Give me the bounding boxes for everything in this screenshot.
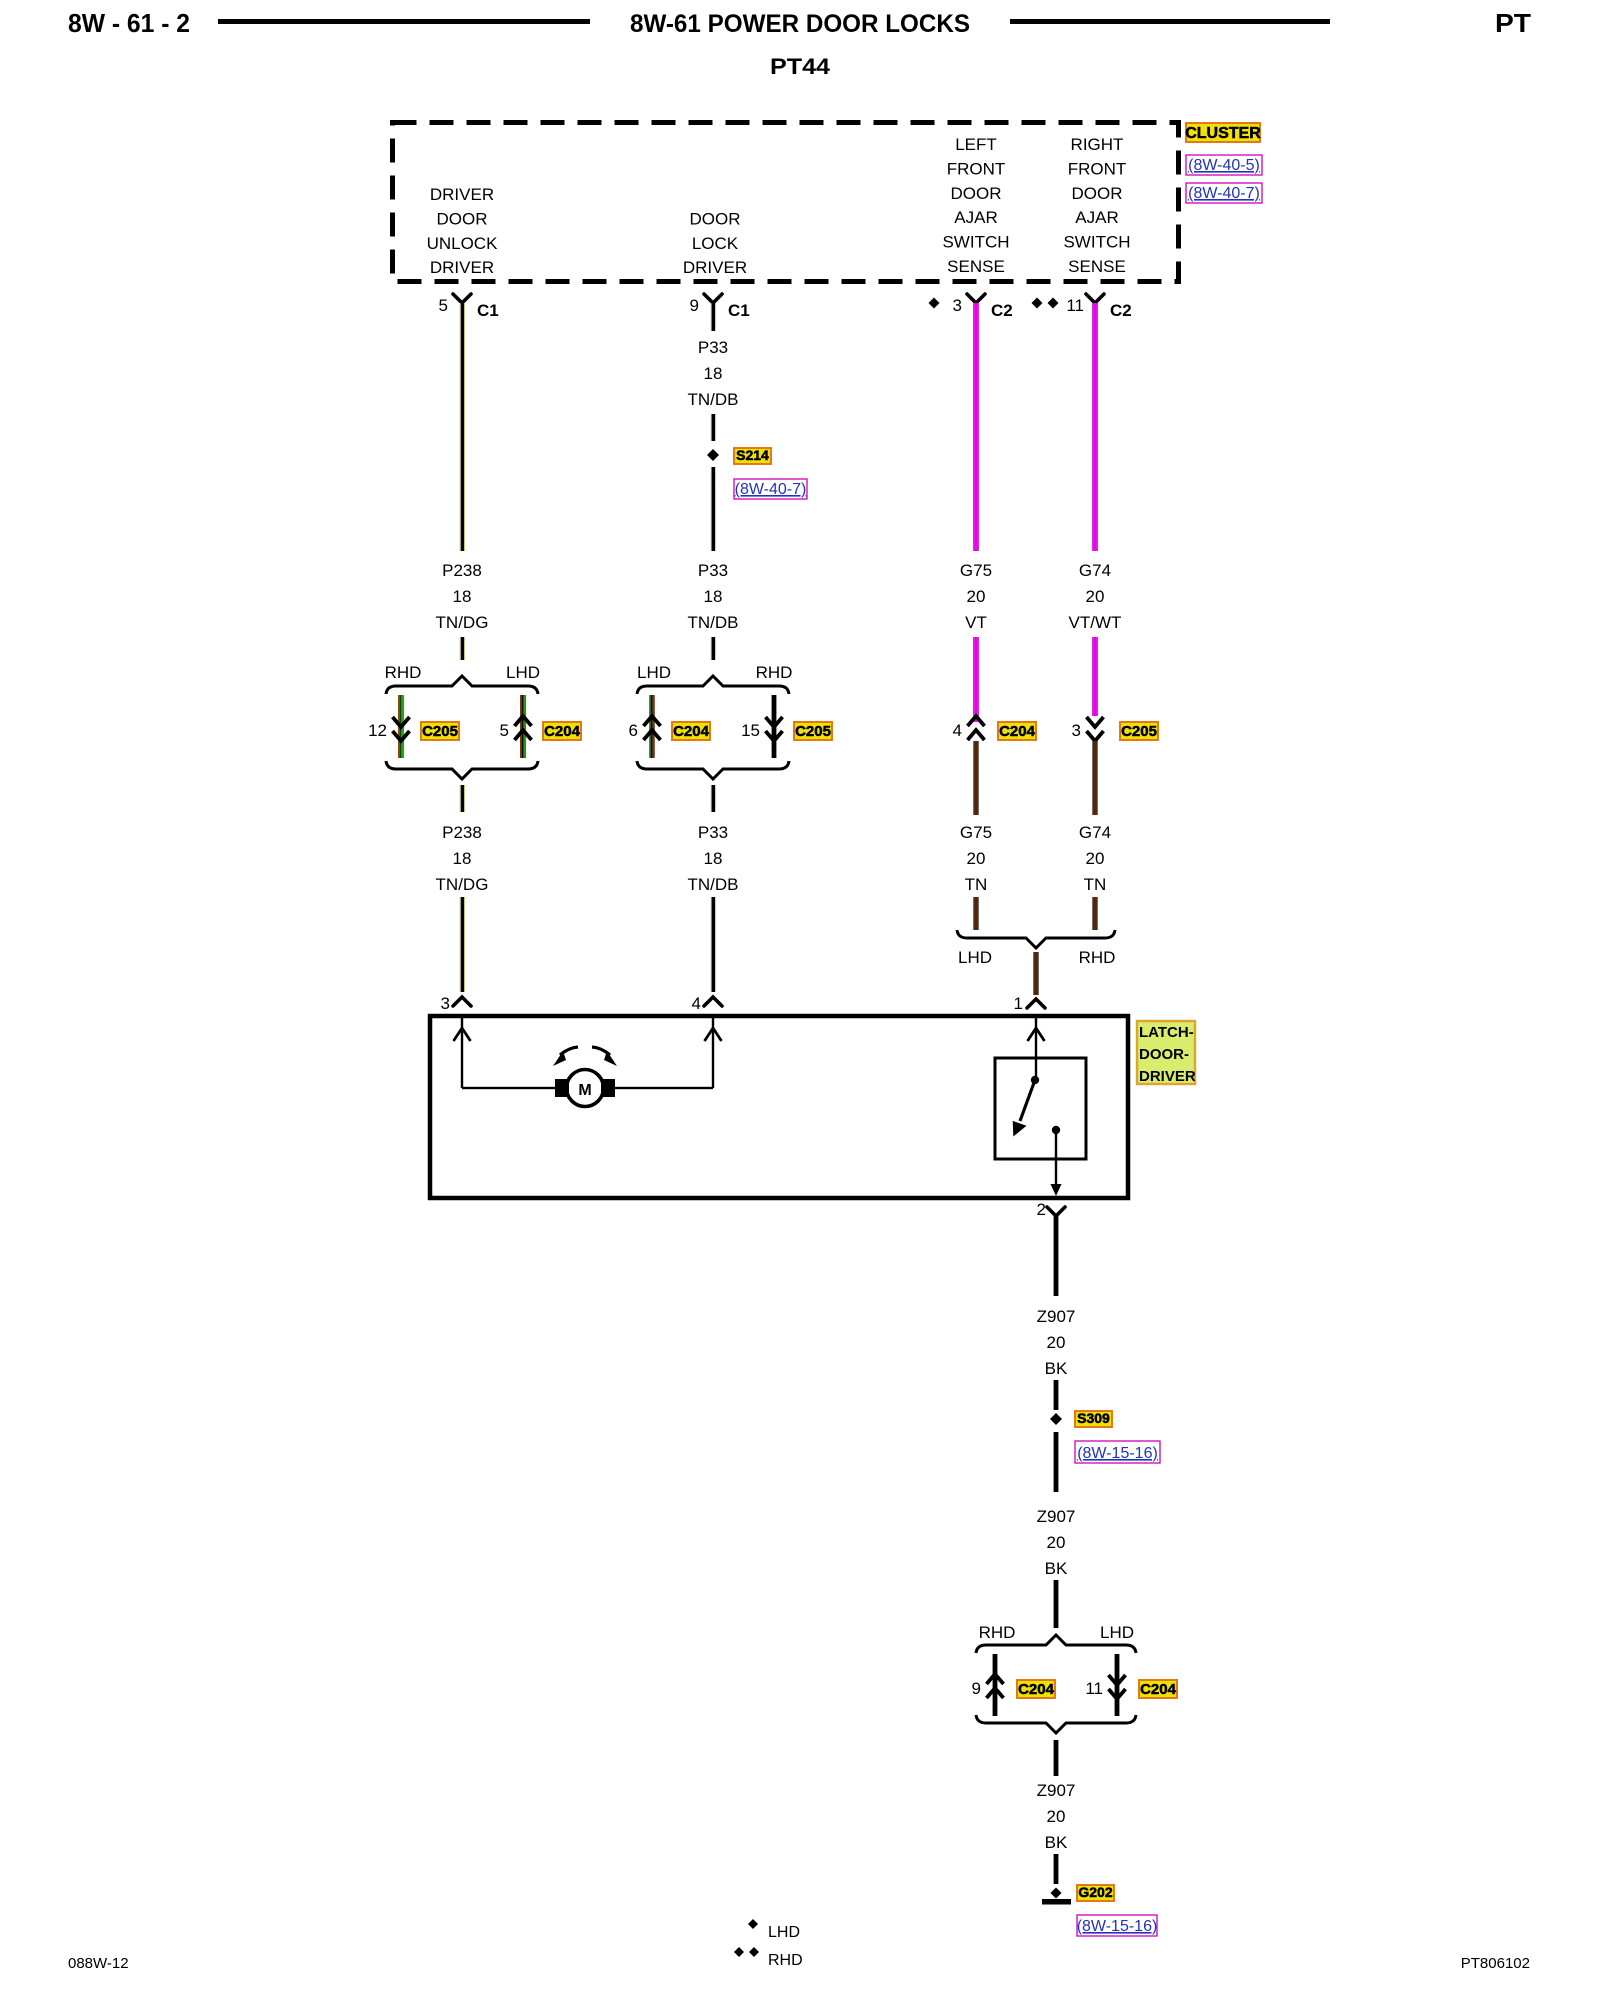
- svg-text:P33: P33: [698, 338, 728, 357]
- wire Z907 segment below splice: [1054, 1432, 1059, 1492]
- svg-text:BK: BK: [1045, 1359, 1068, 1378]
- svg-text:C2: C2: [991, 301, 1013, 320]
- connector label C204 (P33 LHD): [672, 722, 710, 740]
- wire value label G75 20 VT: [960, 561, 992, 632]
- wire P33 segment from cluster pin 9: [711, 303, 715, 331]
- legend diamond RHD 1: [734, 1947, 744, 1957]
- svg-text:18: 18: [453, 587, 472, 606]
- svg-text:FRONT: FRONT: [947, 159, 1006, 178]
- door latch module box outline: [430, 1016, 1128, 1198]
- cluster pin label DOOR LOCK DRIVER: [683, 209, 747, 277]
- wire P238 stub below split: [460, 785, 465, 812]
- svg-text:G75: G75: [960, 561, 992, 580]
- svg-text:LEFT: LEFT: [955, 135, 997, 154]
- svg-text:SWITCH: SWITCH: [942, 233, 1009, 252]
- svg-text:(8W-40-7): (8W-40-7): [735, 481, 807, 498]
- svg-text:BK: BK: [1045, 1559, 1068, 1578]
- svg-text:P33: P33: [698, 823, 728, 842]
- split brace bottom Z907: [976, 1715, 1136, 1733]
- svg-text:8W-61 POWER DOOR LOCKS: 8W-61 POWER DOOR LOCKS: [630, 10, 970, 38]
- wire value label P238 18 TN/DG (lower): [436, 823, 489, 894]
- svg-text:C204: C204: [544, 723, 581, 740]
- wire Z907 stub above split: [1054, 1580, 1059, 1628]
- svg-text:DOOR: DOOR: [1072, 184, 1123, 203]
- svg-text:RIGHT: RIGHT: [1071, 135, 1124, 154]
- svg-text:C205: C205: [422, 723, 458, 740]
- svg-text:20: 20: [1086, 587, 1105, 606]
- wire P33 stub above splice: [711, 414, 715, 441]
- terminal fork latch pin 2: [1047, 1207, 1065, 1216]
- svg-text:088W-12: 088W-12: [68, 1955, 129, 1972]
- connector label C205: [421, 722, 459, 740]
- svg-text:15: 15: [741, 721, 760, 740]
- wire G74 VT/WT segment from cluster pin 11: [1092, 303, 1098, 551]
- svg-text:11: 11: [1085, 1679, 1103, 1698]
- wire P238 segment from cluster pin 5: [460, 303, 465, 551]
- motor rotation arrows: [553, 1047, 617, 1066]
- svg-text:SENSE: SENSE: [947, 257, 1005, 276]
- connector fork C1 pin 9: [704, 294, 722, 303]
- svg-text:18: 18: [704, 849, 723, 868]
- wire value label Z907 20 BK (middle): [1037, 1507, 1076, 1578]
- svg-text:PT44: PT44: [770, 54, 831, 79]
- svg-text:G74: G74: [1079, 823, 1111, 842]
- connector fork C1 pin 5: [453, 294, 471, 303]
- svg-text:PT: PT: [1495, 8, 1531, 38]
- wire P33 segment below splice: [711, 467, 715, 551]
- internal wire switch to latch pin 2 with arrowhead: [1051, 1130, 1062, 1196]
- svg-text:PT806102: PT806102: [1461, 1955, 1530, 1972]
- svg-text:LHD: LHD: [1100, 1623, 1134, 1642]
- reference link 8W-15-16 at S309: [1075, 1441, 1160, 1463]
- svg-text:G75: G75: [960, 823, 992, 842]
- wire value label P33 18 TN/DB (top): [688, 338, 739, 409]
- wire P33 stub below split: [711, 785, 715, 812]
- svg-text:5: 5: [439, 296, 448, 315]
- split brace bottom P238: [386, 761, 538, 779]
- splice label S309: [1075, 1410, 1112, 1427]
- svg-text:FRONT: FRONT: [1068, 159, 1127, 178]
- svg-text:5: 5: [500, 721, 509, 740]
- internal wire motor to latch pin 4: [612, 1018, 714, 1089]
- svg-text:M: M: [578, 1082, 591, 1099]
- svg-text:C2: C2: [1110, 301, 1132, 320]
- svg-text:18: 18: [453, 849, 472, 868]
- terminal fork latch pin 1: [1027, 999, 1045, 1008]
- reference link 8W-40-5: [1186, 155, 1262, 175]
- svg-text:6: 6: [629, 721, 638, 740]
- wire value label P33 18 TN/DB (lower): [688, 823, 739, 894]
- connector arrow C204 pin 11 (down): [1109, 1675, 1126, 1699]
- internal wire latch pin 3 to motor: [461, 1018, 558, 1089]
- svg-text:CLUSTER: CLUSTER: [1185, 125, 1261, 142]
- wire value label G74 20 TN: [1079, 823, 1111, 894]
- svg-text:P238: P238: [442, 561, 482, 580]
- branch wire LHD to C204 (Z907): [1115, 1654, 1120, 1716]
- svg-text:12: 12: [368, 721, 387, 740]
- wire G74 VT/WT segment to connector C205: [1092, 637, 1098, 716]
- connector label C204 (Z907 LHD): [1139, 1680, 1177, 1698]
- svg-text:Z907: Z907: [1037, 1781, 1076, 1800]
- split brace top Z907: [976, 1635, 1136, 1653]
- svg-text:RHD: RHD: [979, 1623, 1016, 1642]
- connector arrow C204 pin 4 (up): [968, 716, 985, 740]
- svg-text:20: 20: [1047, 1533, 1066, 1552]
- wire G74 TN segment below connector: [1092, 741, 1097, 815]
- wire Z907 stub above ground: [1054, 1854, 1059, 1884]
- svg-text:LHD: LHD: [768, 1924, 800, 1941]
- svg-text:G74: G74: [1079, 561, 1111, 580]
- svg-text:LATCH-: LATCH-: [1139, 1024, 1194, 1041]
- svg-text:20: 20: [967, 849, 986, 868]
- wire Z907 segment from latch pin 2: [1054, 1216, 1059, 1296]
- reference link 8W-40-7: [1186, 183, 1262, 203]
- svg-text:LHD: LHD: [958, 948, 992, 967]
- svg-text:DOOR-: DOOR-: [1139, 1046, 1189, 1063]
- svg-text:TN/DG: TN/DG: [436, 875, 489, 894]
- connector arrow C205 pin 3 (down): [1087, 717, 1104, 741]
- connector label C204: [543, 722, 581, 740]
- wire G75 TN segment below connector: [973, 741, 978, 815]
- svg-text:S214: S214: [736, 447, 769, 463]
- wire value label G74 20 VT/WT: [1069, 561, 1122, 632]
- svg-text:Z907: Z907: [1037, 1307, 1076, 1326]
- wire Z907 stub below split: [1054, 1740, 1059, 1776]
- svg-text:2: 2: [1037, 1200, 1046, 1219]
- svg-text:UNLOCK: UNLOCK: [427, 234, 499, 253]
- svg-text:18: 18: [704, 587, 723, 606]
- svg-text:RHD: RHD: [1079, 948, 1116, 967]
- svg-text:C204: C204: [673, 723, 710, 740]
- svg-text:C204: C204: [1140, 1681, 1177, 1698]
- svg-text:G202: G202: [1078, 1884, 1112, 1900]
- svg-text:S309: S309: [1077, 1410, 1110, 1426]
- connector label C205 (G74): [1120, 722, 1158, 740]
- svg-text:P33: P33: [698, 561, 728, 580]
- splice label S214: [734, 447, 771, 464]
- svg-text:(8W-40-7): (8W-40-7): [1188, 185, 1260, 202]
- switch pivot contact dot: [1031, 1076, 1039, 1084]
- wire P238 stub above split: [460, 637, 465, 660]
- connector arrow C204 pin 9 (up): [987, 1674, 1004, 1698]
- internal arrow at pin 4: [705, 1028, 722, 1041]
- ground symbol G202 bar: [1042, 1899, 1071, 1905]
- svg-text:20: 20: [1047, 1333, 1066, 1352]
- svg-text:RHD: RHD: [385, 663, 422, 682]
- svg-text:TN/DG: TN/DG: [436, 613, 489, 632]
- svg-text:3: 3: [1072, 721, 1081, 740]
- svg-text:C1: C1: [477, 301, 499, 320]
- cluster pin label DRIVER DOOR UNLOCK DRIVER: [427, 185, 499, 277]
- connector arrow C205 pin 12 (down): [393, 717, 410, 741]
- wire value label P33 18 TN/DB (upper): [688, 561, 739, 632]
- svg-text:C204: C204: [999, 723, 1036, 740]
- svg-text:DRIVER: DRIVER: [430, 258, 494, 277]
- wire G75 TN stub above join: [973, 897, 978, 930]
- svg-text:DOOR: DOOR: [690, 209, 741, 228]
- legend diamond LHD: [748, 1919, 758, 1929]
- legend diamond RHD 2: [749, 1947, 759, 1957]
- svg-text:RHD: RHD: [756, 663, 793, 682]
- motor M symbol: [555, 1070, 615, 1107]
- svg-text:TN/DB: TN/DB: [688, 613, 739, 632]
- svg-text:SENSE: SENSE: [1068, 257, 1126, 276]
- switch lower contact dot: [1052, 1126, 1060, 1134]
- split brace top P33: [637, 676, 789, 694]
- svg-text:C204: C204: [1018, 1681, 1055, 1698]
- wire Z907 stub above splice S309: [1054, 1380, 1059, 1410]
- svg-text:TN: TN: [965, 875, 988, 894]
- component label LATCH-DOOR-DRIVER: [1137, 1021, 1196, 1085]
- svg-text:3: 3: [953, 296, 962, 315]
- svg-text:18: 18: [704, 364, 723, 383]
- svg-text:20: 20: [967, 587, 986, 606]
- split brace top P238: [386, 676, 538, 694]
- svg-text:VT/WT: VT/WT: [1069, 613, 1122, 632]
- connector arrow C205 pin 15 (down): [766, 717, 783, 741]
- svg-text:SWITCH: SWITCH: [1063, 233, 1130, 252]
- svg-text:(8W-40-5): (8W-40-5): [1188, 157, 1260, 174]
- branch wire RHD to C205 (P33): [772, 695, 777, 758]
- svg-text:DRIVER: DRIVER: [430, 185, 494, 204]
- svg-text:DRIVER: DRIVER: [683, 258, 747, 277]
- internal wire latch pin 1 to switch: [1035, 1018, 1037, 1080]
- split brace bottom P33: [637, 761, 789, 779]
- ground label G202: [1077, 1884, 1114, 1901]
- svg-text:AJAR: AJAR: [1075, 208, 1118, 227]
- wire P33 segment to latch pin 4: [711, 897, 715, 992]
- svg-text:C205: C205: [795, 723, 831, 740]
- reference link 8W-40-7 at splice: [734, 479, 807, 499]
- svg-text:RHD: RHD: [768, 1952, 803, 1969]
- wire value label Z907 20 BK (lower): [1037, 1781, 1076, 1852]
- svg-text:1: 1: [1014, 994, 1023, 1013]
- wire G74 TN stub above join: [1092, 897, 1097, 930]
- connector label C205 (P33 RHD): [794, 722, 832, 740]
- svg-text:TN/DB: TN/DB: [688, 390, 739, 409]
- svg-text:(8W-15-16): (8W-15-16): [1077, 1445, 1158, 1462]
- branch wire RHD to C205: [398, 695, 404, 758]
- branch wire LHD to C204 (P33): [649, 695, 655, 758]
- header rule right: [1010, 19, 1330, 24]
- svg-text:3: 3: [441, 994, 450, 1013]
- wire P33 stub above split: [711, 637, 715, 660]
- RHD marker diamond 2: [1048, 298, 1059, 309]
- svg-text:AJAR: AJAR: [954, 208, 997, 227]
- svg-text:8W - 61 - 2: 8W - 61 - 2: [68, 8, 190, 38]
- terminal fork latch pin 3: [453, 997, 471, 1006]
- terminal fork latch pin 4: [704, 997, 722, 1006]
- connector fork C2 pin 3: [967, 294, 985, 303]
- branch wire RHD to C204 (Z907): [993, 1654, 998, 1716]
- svg-text:(8W-15-16): (8W-15-16): [1077, 1918, 1158, 1935]
- connector fork C2 pin 11: [1086, 294, 1104, 303]
- wire G75 VT segment from cluster pin 3: [973, 303, 979, 551]
- svg-text:LHD: LHD: [506, 663, 540, 682]
- svg-text:9: 9: [690, 296, 699, 315]
- reference link 8W-15-16 at G202: [1077, 1915, 1158, 1936]
- svg-text:P238: P238: [442, 823, 482, 842]
- header rule left: [218, 19, 590, 24]
- connector label C204 (G75): [998, 722, 1036, 740]
- branch wire LHD to C204: [520, 695, 526, 758]
- cluster pin label LEFT FRONT DOOR AJAR SWITCH SENSE: [942, 135, 1009, 276]
- ground junction dot G202: [1051, 1888, 1062, 1899]
- svg-text:20: 20: [1086, 849, 1105, 868]
- combined TN wire to latch pin 1: [1033, 952, 1038, 995]
- svg-text:DRIVER: DRIVER: [1139, 1068, 1196, 1085]
- svg-text:LHD: LHD: [637, 663, 671, 682]
- cluster module dashed boundary box: [393, 123, 1179, 282]
- svg-text:LOCK: LOCK: [692, 234, 739, 253]
- svg-text:9: 9: [972, 1679, 981, 1698]
- wire value label G75 20 TN: [960, 823, 992, 894]
- wire value label P238 18 TN/DG (upper): [436, 561, 489, 632]
- LHD marker diamond: [929, 298, 940, 309]
- splice S309 junction dot: [1050, 1413, 1062, 1425]
- RHD marker diamond 1: [1032, 298, 1043, 309]
- svg-text:DOOR: DOOR: [437, 209, 488, 228]
- splice S214 junction dot: [707, 449, 719, 461]
- svg-text:4: 4: [953, 721, 962, 740]
- wire value label Z907 20 BK (upper): [1037, 1307, 1076, 1378]
- svg-text:11: 11: [1066, 296, 1084, 315]
- connector arrow C204 pin 6 (up): [644, 716, 661, 740]
- component label CLUSTER: [1185, 123, 1261, 142]
- svg-text:C1: C1: [728, 301, 750, 320]
- cluster pin label RIGHT FRONT DOOR AJAR SWITCH SENSE: [1063, 135, 1130, 276]
- svg-text:20: 20: [1047, 1807, 1066, 1826]
- wire G75 VT segment to connector C204: [973, 637, 979, 722]
- svg-text:BK: BK: [1045, 1833, 1068, 1852]
- svg-text:C205: C205: [1121, 723, 1157, 740]
- switch lever with arrowhead: [1014, 1080, 1036, 1135]
- svg-text:Z907: Z907: [1037, 1507, 1076, 1526]
- svg-text:TN: TN: [1084, 875, 1107, 894]
- svg-text:4: 4: [692, 994, 701, 1013]
- connector arrow C204 pin 5 (up): [515, 716, 532, 740]
- svg-text:VT: VT: [965, 613, 987, 632]
- ajar switch box: [995, 1058, 1086, 1159]
- internal arrow at pin 1: [1028, 1028, 1045, 1041]
- connector label C204 (Z907 RHD): [1017, 1680, 1055, 1698]
- svg-text:DOOR: DOOR: [951, 184, 1002, 203]
- join brace G75/G74 to latch pin 1: [957, 930, 1115, 948]
- internal arrow at pin 3: [454, 1028, 471, 1041]
- svg-text:TN/DB: TN/DB: [688, 875, 739, 894]
- wire P238 segment to latch pin 3: [460, 897, 465, 992]
